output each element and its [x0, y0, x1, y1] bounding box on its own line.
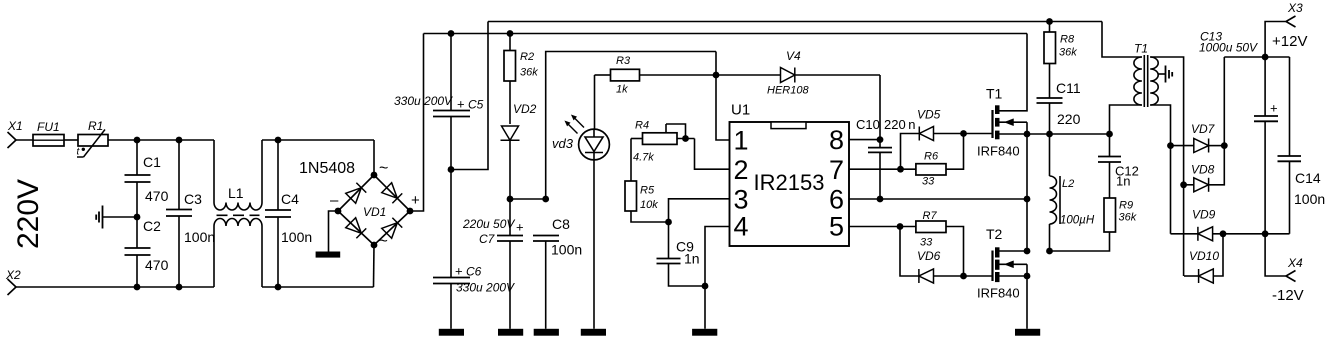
- svg-text:IR2153: IR2153: [754, 170, 825, 195]
- wire pin7: [849, 168, 916, 170]
- node T2 gate: [960, 273, 967, 280]
- diode VD9: [1171, 208, 1290, 241]
- svg-text:100n: 100n: [281, 229, 312, 245]
- terminal X4: [1265, 234, 1303, 282]
- choke L1: [214, 140, 262, 287]
- transistor T2 IRF840: [977, 226, 1027, 301]
- svg-text:–: –: [330, 192, 339, 209]
- svg-text:1000u 50V: 1000u 50V: [1199, 41, 1258, 55]
- diode V4 HER108: [716, 49, 880, 97]
- node T1 source: [1024, 131, 1031, 138]
- wire pin6 to switching node: [849, 198, 1027, 200]
- svg-text:1n: 1n: [684, 251, 700, 267]
- node L2 bottom: [1046, 248, 1053, 255]
- diode VD7: [1171, 122, 1225, 153]
- ground bar pin4: [692, 329, 717, 336]
- svg-text:+: +: [457, 97, 465, 112]
- capacitor C6: [433, 170, 515, 329]
- wire pin5: [849, 226, 916, 228]
- node primary bottom C12 top: [1106, 131, 1113, 138]
- svg-text:100n: 100n: [551, 242, 582, 258]
- capacitor C11: [1037, 80, 1081, 134]
- svg-text:L2: L2: [1062, 178, 1074, 190]
- node bridge plus: [407, 192, 420, 214]
- wire bridge bottom riser: [373, 245, 376, 287]
- capacitor C2: [125, 217, 169, 287]
- wire pin8: [849, 139, 880, 141]
- pin 6: [829, 185, 844, 215]
- label +12V: [1272, 33, 1307, 50]
- svg-text:R5: R5: [640, 185, 655, 197]
- transformer T1 primary: [1110, 42, 1149, 135]
- node T2 source: [1024, 273, 1031, 280]
- node C7 top: [507, 196, 514, 203]
- diode VD5: [901, 108, 964, 170]
- node bridge minus: [330, 192, 341, 214]
- wire top rail R1 to L1: [108, 139, 214, 141]
- inductor L2: [1050, 134, 1095, 251]
- svg-text:IRF840: IRF840: [977, 286, 1020, 301]
- svg-text:4: 4: [734, 212, 749, 242]
- svg-text:330u 200V: 330u 200V: [394, 94, 453, 108]
- wire R3 to LED: [594, 75, 596, 129]
- node VD6 riser: [897, 223, 904, 230]
- svg-text:HER108: HER108: [767, 85, 809, 97]
- svg-text:VD7: VD7: [1191, 122, 1216, 136]
- node pin8 C10: [877, 136, 884, 143]
- node VD7 cathode: [1221, 142, 1228, 149]
- wire feed rail to transformer: [488, 21, 1102, 23]
- bridge diode top-left: [346, 183, 367, 204]
- svg-text:8: 8: [829, 125, 844, 155]
- svg-text:7: 7: [829, 155, 844, 185]
- trimmer R4: [631, 120, 695, 164]
- wire bridge minus to ground: [329, 211, 339, 252]
- transformer T1 core: [1144, 55, 1147, 107]
- wire pin4 to ground: [705, 227, 730, 329]
- svg-text:~: ~: [379, 233, 388, 250]
- terminal X1: [7, 119, 23, 148]
- node C4 bottom: [275, 284, 282, 291]
- svg-text:33: 33: [922, 176, 935, 188]
- node VD5 anode riser: [897, 166, 904, 173]
- svg-text:36k: 36k: [520, 67, 538, 79]
- svg-text:36k: 36k: [1059, 47, 1077, 59]
- node C1 top: [134, 137, 141, 144]
- label -12V: [1272, 287, 1304, 304]
- capacitor C13: [1199, 30, 1278, 234]
- node T1 gate: [960, 130, 967, 137]
- node pin6 on switching node: [1024, 196, 1031, 203]
- svg-text:C3: C3: [184, 191, 202, 207]
- wire pin3 to node: [669, 199, 730, 222]
- pin 3: [734, 185, 749, 215]
- capacitor C4: [265, 140, 312, 287]
- svg-text:R2: R2: [520, 51, 534, 63]
- ground bar vd3: [581, 329, 606, 336]
- capacitor C10: [856, 117, 916, 199]
- thermistor R1: [77, 119, 109, 158]
- svg-text:FU1: FU1: [37, 120, 60, 134]
- capacitor C8: [533, 216, 582, 329]
- svg-text:IRF840: IRF840: [977, 144, 1020, 159]
- svg-text:1k: 1k: [616, 84, 628, 96]
- label 220V: [12, 179, 45, 249]
- svg-text:V4: V4: [786, 49, 801, 63]
- diode VD6: [900, 227, 964, 284]
- node C3 bottom: [176, 284, 183, 291]
- node Vcc R3 V4: [713, 72, 720, 79]
- resistor R9: [1050, 198, 1137, 251]
- wire feed rail to primary riser: [1102, 22, 1142, 58]
- LED vd3: [552, 115, 609, 329]
- capacitor C1: [125, 140, 169, 217]
- svg-text:U1: U1: [731, 102, 750, 119]
- resistor R2: [504, 34, 538, 125]
- bridge diode bottom-left: [346, 218, 367, 239]
- resistor R5: [625, 139, 669, 223]
- diode VD8: [1184, 57, 1225, 192]
- wire bottom rail L1 to bridge: [262, 286, 374, 288]
- svg-text:C6: C6: [466, 265, 482, 279]
- capacitor C14: [1278, 57, 1326, 234]
- terminal X3: [1265, 1, 1303, 57]
- pin 2: [734, 155, 749, 185]
- node bridge bottom: [371, 233, 388, 250]
- earth ground at C1-C2: [96, 206, 137, 229]
- node C4 top: [275, 137, 282, 144]
- bridge VD1 frame: [338, 175, 410, 245]
- wire bridge plus riser to HV rail: [410, 34, 424, 212]
- node +12V: [1262, 54, 1269, 61]
- wire top rail L1 to bridge: [262, 139, 374, 141]
- svg-text:X2: X2: [5, 268, 21, 282]
- ground bar T2: [1015, 329, 1040, 336]
- svg-text:5: 5: [829, 212, 844, 242]
- svg-text:L1: L1: [228, 185, 244, 201]
- resistor R7: [916, 210, 964, 276]
- wire T2 gate lead: [964, 275, 992, 277]
- svg-text:VD2: VD2: [513, 102, 537, 116]
- svg-text:C2: C2: [143, 218, 161, 234]
- svg-text:VD10: VD10: [1189, 249, 1219, 263]
- node R2 top: [507, 30, 514, 37]
- svg-text:VD1: VD1: [363, 205, 386, 219]
- svg-text:C1: C1: [143, 154, 161, 170]
- resistor R6: [916, 134, 964, 188]
- svg-text:VD9: VD9: [1192, 208, 1216, 222]
- wire HV rail +310V: [424, 33, 1028, 35]
- svg-text:X4: X4: [1287, 256, 1303, 270]
- svg-text:220u 50V: 220u 50V: [462, 217, 515, 231]
- ground bar C8: [534, 329, 559, 336]
- wire fuse to R1: [64, 139, 78, 141]
- svg-text:X3: X3: [1287, 1, 1303, 15]
- svg-text:1N5408: 1N5408: [299, 160, 355, 177]
- svg-text:+: +: [516, 220, 524, 235]
- pin 1: [734, 126, 749, 156]
- pin 5: [829, 212, 844, 242]
- pin 4: [734, 212, 749, 242]
- node C8 top: [542, 196, 549, 203]
- node C10 bottom pin6: [877, 196, 884, 203]
- wire Vcc drop line: [546, 52, 716, 200]
- ground bar bridge minus: [316, 252, 341, 258]
- resistor R3: [595, 55, 716, 96]
- fuse FU1: [33, 120, 64, 146]
- svg-text:X1: X1: [7, 119, 23, 133]
- ground bar C7: [498, 329, 523, 336]
- svg-text:C8: C8: [552, 216, 570, 232]
- pin 7: [829, 155, 844, 185]
- node C5 top: [448, 30, 455, 37]
- node bridge top: [371, 160, 389, 178]
- svg-text:R7: R7: [923, 210, 938, 222]
- transformer T1 secondary: [1150, 57, 1183, 276]
- wire +12V rail: [1224, 56, 1289, 58]
- node C1 bottom: [134, 284, 141, 291]
- wire switching node vertical: [1026, 134, 1028, 251]
- node VD9 VD10 junction: [1220, 230, 1227, 237]
- node R4 wiper: [682, 135, 689, 142]
- svg-text:+: +: [411, 192, 420, 209]
- svg-text:3: 3: [734, 185, 749, 215]
- svg-text:1n: 1n: [1116, 174, 1130, 189]
- svg-text:R9: R9: [1119, 200, 1133, 212]
- svg-text:+: +: [455, 264, 463, 279]
- svg-text:T2: T2: [986, 226, 1003, 242]
- node VD8 anode: [1180, 181, 1187, 188]
- capacitor C7: [462, 199, 524, 329]
- svg-text:100µH: 100µH: [1060, 215, 1095, 227]
- svg-text:+12V: +12V: [1272, 33, 1307, 50]
- ground bar C6: [439, 329, 464, 336]
- svg-text:R3: R3: [616, 55, 631, 67]
- op-amp U1 IR2153 body: [730, 102, 850, 247]
- node C3 top: [176, 137, 183, 144]
- wire T1 gate lead: [964, 133, 992, 135]
- capacitor C12: [1098, 134, 1139, 198]
- node C11 bottom L2 top: [1046, 131, 1053, 138]
- svg-text:R6: R6: [924, 151, 939, 163]
- svg-text:VD6: VD6: [917, 249, 941, 263]
- svg-text:VD8: VD8: [1191, 163, 1215, 177]
- node R8 top: [1046, 18, 1053, 25]
- svg-text:470: 470: [145, 257, 169, 273]
- wire R4 to pin2: [695, 139, 730, 170]
- wire midpoint rail: [1027, 133, 1110, 135]
- transistor T1 IRF840: [977, 34, 1027, 159]
- svg-text:C7: C7: [479, 232, 496, 246]
- svg-text:~: ~: [379, 160, 388, 177]
- svg-text:vd3: vd3: [552, 136, 574, 151]
- svg-text:1: 1: [734, 126, 749, 156]
- svg-text:10k: 10k: [640, 199, 658, 211]
- svg-text:C10: C10: [856, 117, 880, 132]
- svg-text:470: 470: [145, 188, 169, 204]
- svg-text:2: 2: [734, 155, 749, 185]
- capacitor C3: [166, 140, 215, 287]
- diode VD2: [501, 102, 537, 199]
- wire V4 to pin8: [879, 75, 881, 140]
- bridge diode bottom-right: [382, 218, 403, 239]
- node C1-C2 midpoint: [134, 214, 141, 221]
- node R5 C9 pin3: [665, 219, 672, 226]
- svg-text:220 n: 220 n: [884, 117, 916, 132]
- bridge diode top-right: [382, 183, 403, 204]
- earth ground transformer screen: [1158, 66, 1173, 83]
- terminal X2: [5, 268, 21, 295]
- wire bottom rail X2 to L1: [16, 286, 214, 288]
- svg-text:4.7k: 4.7k: [633, 152, 654, 164]
- capacitor C9: [657, 222, 706, 286]
- svg-text:R1: R1: [88, 119, 103, 133]
- node VD7 anode: [1167, 142, 1174, 149]
- wire T2 source to ground: [1026, 276, 1028, 329]
- node C9 to pin4 wire: [702, 283, 709, 290]
- wire C7 to C8 node: [510, 198, 546, 200]
- svg-text:6: 6: [829, 185, 844, 215]
- diode VD10: [1184, 234, 1223, 283]
- node C5-C6 midpoint: [448, 166, 455, 173]
- svg-text:220: 220: [1057, 111, 1081, 127]
- wire bridge top riser: [373, 140, 375, 175]
- resistor R8: [1044, 22, 1077, 99]
- svg-text:C4: C4: [281, 191, 299, 207]
- svg-text:220V: 220V: [12, 179, 45, 249]
- svg-text:C11: C11: [1056, 80, 1081, 96]
- node C13 bottom -12V: [1262, 230, 1269, 237]
- svg-text:100n: 100n: [184, 229, 215, 245]
- svg-text:100n: 100n: [1294, 191, 1325, 207]
- svg-text:33: 33: [920, 237, 933, 249]
- svg-text:T1: T1: [1134, 42, 1148, 56]
- node T2 drain: [1024, 248, 1031, 255]
- wire pin1 riser: [716, 52, 730, 141]
- svg-text:C14: C14: [1295, 170, 1321, 186]
- wire midpoint to half-bridge feed rail: [451, 22, 488, 170]
- svg-text:t: t: [77, 147, 81, 158]
- svg-text:-12V: -12V: [1272, 287, 1304, 304]
- svg-text:+: +: [1270, 101, 1278, 116]
- label 1N5408: [299, 160, 355, 177]
- wire X1 to fuse: [16, 139, 33, 141]
- svg-text:36k: 36k: [1119, 212, 1137, 224]
- svg-text:R8: R8: [1060, 34, 1075, 46]
- pin 8: [829, 125, 844, 155]
- svg-text:VD5: VD5: [917, 108, 941, 122]
- svg-text:R4: R4: [635, 120, 649, 132]
- capacitor C5: [394, 34, 484, 170]
- svg-text:330u 200V: 330u 200V: [456, 281, 515, 295]
- svg-text:T1: T1: [986, 86, 1003, 102]
- svg-text:C5: C5: [468, 98, 484, 112]
